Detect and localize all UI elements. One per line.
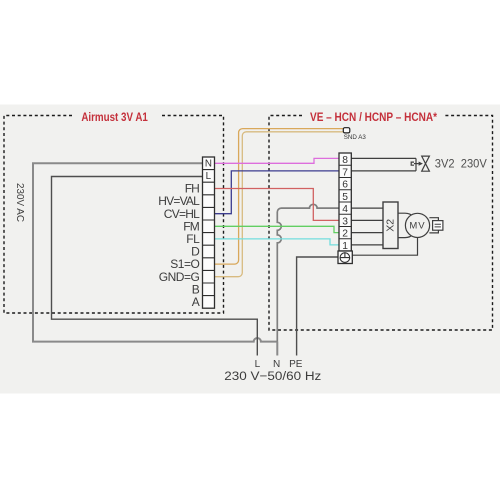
svg-text:6: 6 — [342, 180, 348, 191]
svg-text:2: 2 — [342, 229, 348, 240]
svg-text:N: N — [205, 158, 212, 169]
svg-text:1: 1 — [342, 241, 348, 252]
svg-text:SND A3: SND A3 — [344, 134, 367, 141]
svg-text:X2: X2 — [385, 219, 397, 232]
svg-text:VE – HCN / HCNP – HCNA*: VE – HCN / HCNP – HCNA* — [310, 112, 437, 124]
svg-text:A: A — [192, 295, 200, 309]
svg-text:5: 5 — [342, 192, 348, 203]
svg-text:8: 8 — [342, 155, 348, 166]
svg-text:Airmust 3V A1: Airmust 3V A1 — [81, 112, 148, 124]
svg-text:MV: MV — [409, 220, 425, 231]
svg-text:3V2 230V: 3V2 230V — [435, 156, 487, 170]
svg-text:3: 3 — [342, 216, 348, 227]
svg-text:230V AC: 230V AC — [14, 183, 26, 222]
svg-text:4: 4 — [342, 204, 348, 215]
svg-text:L: L — [206, 171, 212, 182]
svg-text:230 V−50/60 Hz: 230 V−50/60 Hz — [224, 369, 321, 383]
svg-text:7: 7 — [342, 167, 348, 178]
